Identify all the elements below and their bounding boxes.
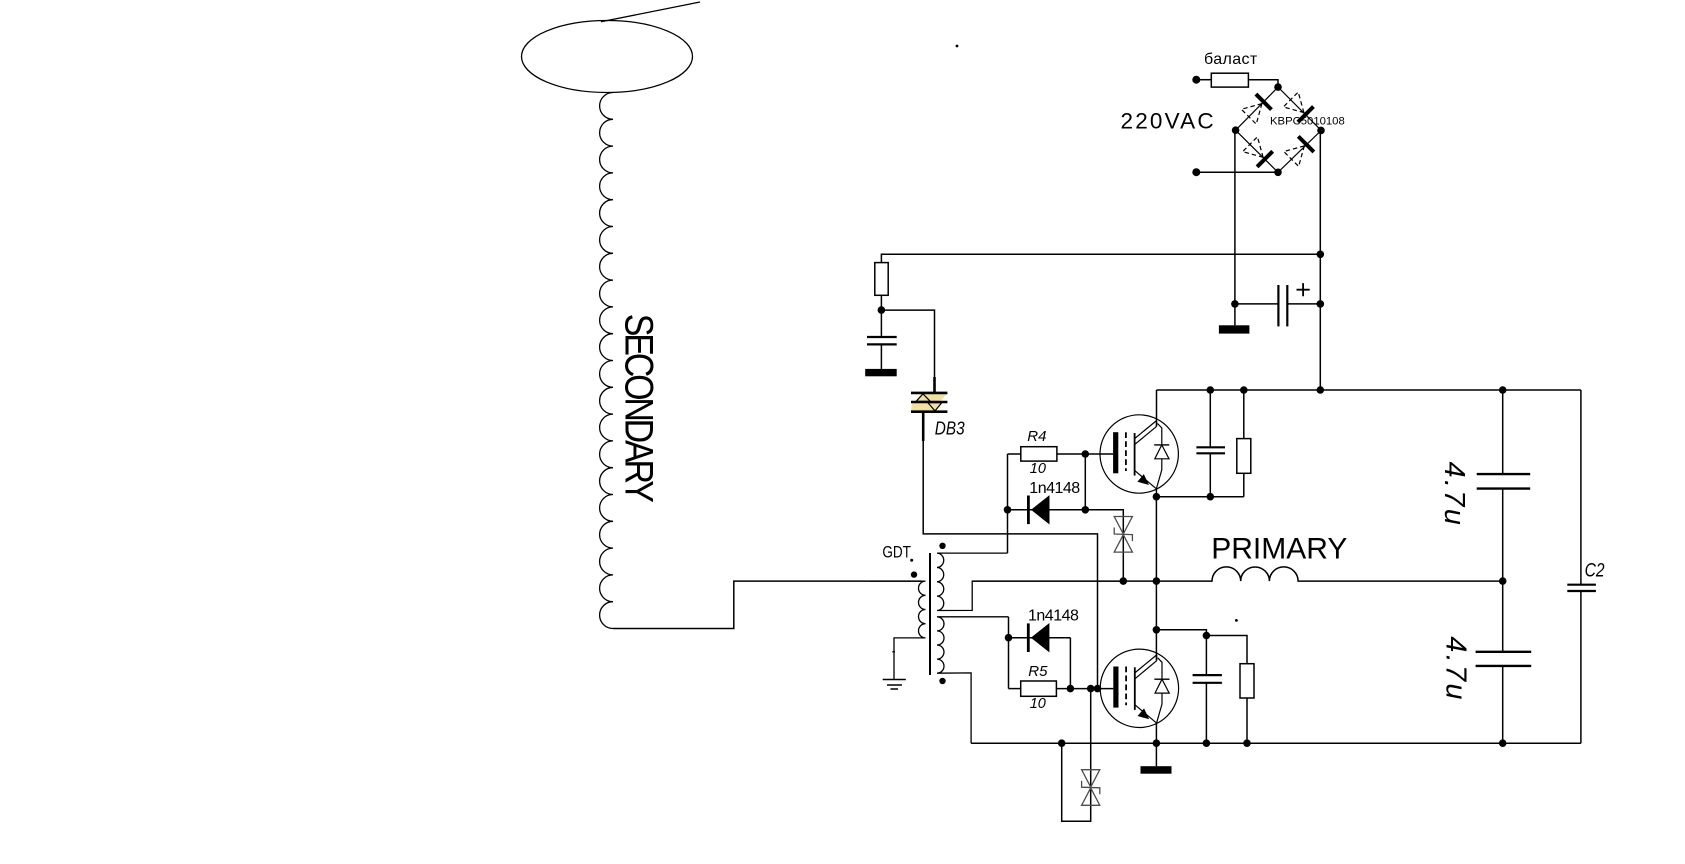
bridge diode D-TR	[1283, 92, 1313, 122]
node emitter1	[1153, 493, 1161, 501]
capacitor electrolytic plates	[1277, 285, 1279, 326]
wire DB3 to lower gate	[923, 441, 1097, 689]
capacitor C2 wires	[1580, 390, 1582, 743]
wire terminal to ballast	[1196, 79, 1211, 81]
resistor R4	[1021, 447, 1057, 461]
capacitor electrolytic filter wires	[1235, 303, 1279, 305]
transistor Q2 IGBT	[1100, 649, 1178, 727]
wire terminal to bridge AC bottom	[1196, 171, 1278, 173]
wire bridge plus down to top rail	[1319, 130, 1321, 390]
svg-text:C2: C2	[1585, 559, 1605, 581]
node D1 left	[1004, 506, 1012, 514]
node bridge bottom	[1274, 169, 1282, 177]
node bridge left	[1232, 126, 1240, 134]
transformer GDT core	[929, 553, 931, 675]
node DB3 gate row	[1094, 685, 1102, 693]
node collector2	[1153, 626, 1161, 634]
node mid rail 4.7u	[1499, 577, 1507, 585]
node snubber cap Q2 top	[1203, 632, 1211, 640]
node 4.7u top at rail	[1499, 386, 1507, 394]
toroid topload	[522, 21, 693, 93]
GDT phase dot primary	[911, 571, 917, 577]
node snubber cap Q1 bottom	[1207, 493, 1215, 501]
GDT secondary winding top (right)	[937, 553, 1123, 610]
resistor R5	[1021, 681, 1057, 696]
node D2 left	[1005, 634, 1013, 642]
node bottom rail emitter2	[1153, 739, 1161, 747]
node snubber res Q1 top	[1240, 386, 1248, 394]
wire RC node to DB3	[881, 310, 934, 392]
svg-text:10: 10	[1030, 696, 1046, 712]
wire R4 left	[1008, 453, 1021, 455]
wire TVS2 vertical gate2 down	[1062, 689, 1091, 822]
node emitter1 mid rail	[1153, 577, 1161, 585]
node TVS1 bottom on mid rail	[1120, 577, 1128, 585]
diode D1 1n4148	[1028, 495, 1049, 524]
secondary coil L2	[600, 93, 613, 629]
ground bar at DC minus	[1234, 304, 1236, 325]
snubber resistor Q2	[1240, 664, 1254, 698]
snubber cap Q2 plates	[1193, 675, 1222, 683]
svg-text:1n4148: 1n4148	[1028, 607, 1079, 624]
svg-text:4.7u: 4.7u	[1439, 636, 1471, 702]
diac DB3	[911, 377, 947, 441]
stray mark GDT period	[910, 559, 913, 562]
wire D2 row	[1009, 637, 1071, 639]
svg-text:PRIMARY: PRIMARY	[1211, 533, 1347, 566]
wire Q1 collector to top rail	[1156, 390, 1158, 427]
capacitor 4.7u bottom wires	[1502, 581, 1504, 743]
capacitor 4.7u top wires	[1502, 390, 1504, 581]
GDT phase dot sec bottom	[939, 678, 945, 684]
wire collector2 to snubber Q2	[1156, 630, 1247, 664]
bridge diode D-BL	[1242, 136, 1272, 166]
node D1 right	[1082, 506, 1090, 514]
wire D1 row to TVS1	[1085, 510, 1123, 581]
mid rail with PRIMARY inductor	[972, 567, 1502, 581]
GDT primary winding (left)	[870, 581, 926, 679]
terminal AC line 2	[1192, 168, 1200, 176]
capacitor C2 plates	[1567, 585, 1596, 591]
ground GDT (3-line)	[883, 680, 906, 690]
svg-text:1n4148: 1n4148	[1029, 480, 1080, 497]
svg-text:баласт: баласт	[1204, 51, 1258, 68]
transistor Q1 IGBT	[1100, 415, 1178, 493]
stray dot right of collector2	[1235, 619, 1238, 622]
wire D1 right to gate1	[1084, 454, 1086, 510]
node gate1	[1082, 450, 1090, 458]
capacitor timing plates	[867, 336, 897, 338]
svg-text:GDT: GDT	[882, 543, 911, 561]
snubber resistor Q1	[1237, 439, 1251, 474]
wire bridge minus down to filter node	[1234, 130, 1236, 304]
wire DC plus to DB3 charge resistor	[881, 254, 1320, 262]
breakout wire	[601, 2, 700, 22]
svg-text:SECONDARY: SECONDARY	[617, 314, 661, 503]
bridge diode D-BR	[1283, 136, 1313, 166]
top rail	[1157, 389, 1581, 391]
TVS2 bidirectional suppressor	[1082, 770, 1100, 806]
wire R5 left	[1009, 688, 1021, 690]
stray tick GDT ground lead	[892, 651, 895, 653]
wire ballast to bridge AC top	[1248, 80, 1278, 87]
capacitor timing wire	[880, 310, 882, 337]
ground bar at emitter2	[1155, 743, 1157, 766]
node plus rail at bridge feed	[1317, 386, 1325, 394]
wire Q1 emitter chain down to Q2 collector	[1155, 489, 1157, 660]
svg-text:R4: R4	[1027, 428, 1046, 445]
node DC plus at cap	[1317, 300, 1325, 308]
diode D2 1n4148	[1028, 623, 1049, 652]
TVS1 bidirectional suppressor	[1114, 517, 1132, 553]
bridge diode D-TL	[1241, 94, 1271, 124]
snubber resistor Q2 bottom wire	[1246, 698, 1248, 743]
GDT phase dot sec top	[939, 543, 945, 549]
wire R4 right to gate1	[1057, 453, 1113, 455]
resistor DB3 charge	[875, 263, 888, 296]
GDT secondary winding bottom (right)	[937, 617, 1009, 743]
wire D2 right down to gate2 row	[1069, 638, 1071, 689]
node bottom rail snubber cap Q2	[1203, 739, 1211, 747]
svg-text:220VAC: 220VAC	[1121, 108, 1216, 133]
stray mark top	[956, 45, 959, 48]
node bottom rail TVS return	[1058, 739, 1066, 747]
snubber cap Q2 wires	[1205, 636, 1207, 744]
capacitor 4.7u bottom plates	[1476, 652, 1532, 666]
resistor баласт (ballast)	[1211, 73, 1248, 87]
wire secondary bottom to GDT primary	[613, 581, 922, 628]
svg-text:KBPC5010108: KBPC5010108	[1270, 115, 1345, 127]
svg-text:DB3: DB3	[935, 418, 965, 439]
node bottom rail snubber res Q2	[1243, 739, 1251, 747]
bridge rectifier KBPC5010108 diamond wires	[1236, 87, 1322, 172]
node D2 right gate row	[1067, 685, 1075, 693]
wire gate1 feed vertical (R4 left / D1 left / winding)	[1007, 454, 1009, 553]
node DC minus	[1231, 300, 1239, 308]
node snubber cap Q1 top	[1207, 386, 1215, 394]
wire R5 right to gate2	[1056, 688, 1113, 690]
wire gate2 feed vertical	[1008, 617, 1010, 689]
node DC plus feed	[1317, 251, 1325, 259]
svg-text:R5: R5	[1028, 663, 1048, 680]
wire Q2 emitter to bottom rail	[1155, 722, 1157, 743]
snubber cap Q1 wires	[1209, 390, 1211, 497]
snubber resistor Q1 wires	[1243, 390, 1245, 497]
wire D1 row	[1008, 509, 1086, 511]
node RC timing	[878, 306, 886, 314]
svg-text:4.7u: 4.7u	[1438, 462, 1470, 528]
node bridge right	[1317, 127, 1325, 135]
plus polarity mark	[1297, 283, 1310, 296]
snubber rail Q1	[1156, 496, 1243, 498]
node TVS2 top gate row	[1087, 685, 1095, 693]
ground bar at timing cap	[880, 344, 882, 369]
capacitor 4.7u top plates	[1477, 474, 1531, 489]
node bottom rail 4.7u	[1499, 739, 1507, 747]
svg-text:10: 10	[1030, 461, 1046, 477]
snubber cap Q1 plates	[1196, 447, 1225, 453]
bottom rail	[971, 742, 1581, 744]
terminal AC line 1	[1192, 76, 1200, 84]
node bridge top	[1274, 83, 1282, 91]
wire resistor to RC node	[880, 295, 882, 310]
